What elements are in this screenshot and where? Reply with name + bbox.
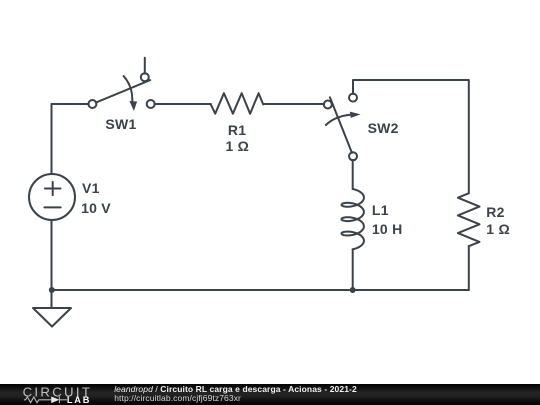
svg-text:LAB: LAB <box>67 395 91 405</box>
